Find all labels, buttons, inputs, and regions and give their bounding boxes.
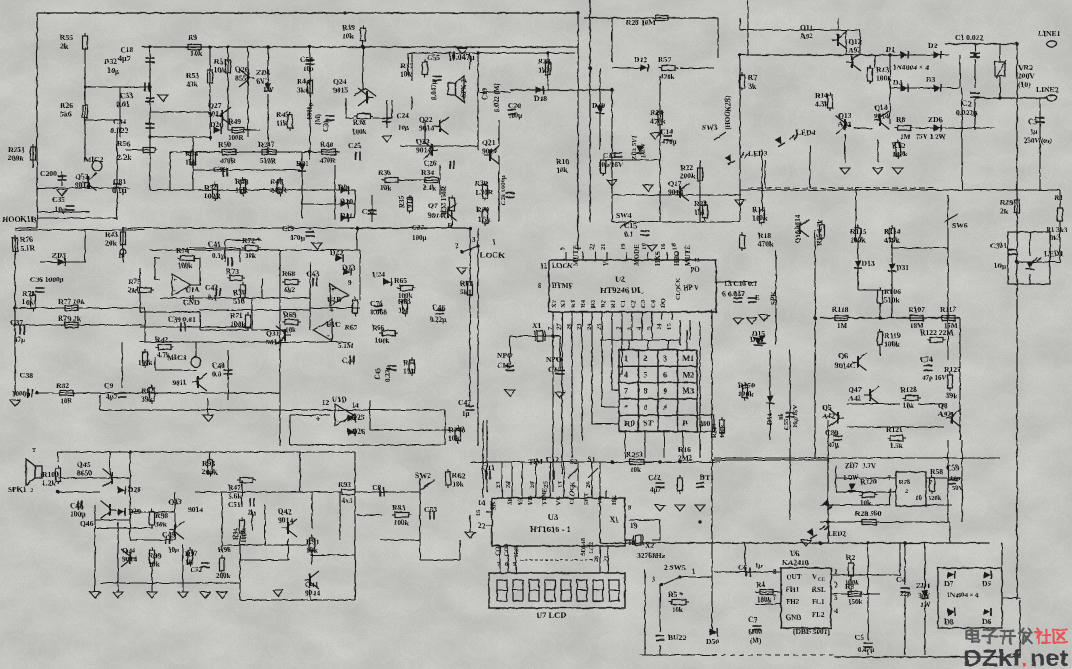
svg-text:RSL: RSL [812, 586, 826, 594]
svg-text:C16: C16 [497, 361, 510, 370]
svg-text:R118: R118 [832, 305, 849, 314]
svg-text:R49: R49 [228, 117, 241, 126]
svg-text:LOCK: LOCK [552, 262, 573, 270]
svg-text:28: 28 [593, 555, 600, 562]
svg-text:9014: 9014 [419, 124, 434, 133]
svg-text:1.2k: 1.2k [42, 479, 56, 488]
svg-text:R82: R82 [56, 381, 69, 390]
svg-text:16μ/16V: 16μ/16V [792, 405, 799, 428]
svg-text:4μ7: 4μ7 [650, 486, 661, 494]
svg-text:0.022 (M): 0.022 (M) [493, 83, 501, 112]
svg-text:MIC2: MIC2 [84, 155, 104, 164]
svg-text:D26: D26 [352, 427, 365, 436]
svg-text:C81: C81 [113, 177, 126, 186]
svg-text:R57: R57 [658, 55, 671, 64]
svg-text:43k: 43k [186, 80, 199, 89]
svg-text:0.022: 0.022 [110, 126, 128, 135]
svg-text:10k: 10k [22, 298, 35, 307]
svg-text:0.047μ: 0.047μ [452, 53, 475, 62]
svg-text:6800ρ: 6800ρ [306, 102, 314, 120]
svg-text:9014: 9014 [208, 110, 223, 119]
svg-text:R1: R1 [1054, 193, 1063, 202]
svg-text:FH2: FH2 [786, 598, 800, 606]
svg-text:(10): (10) [1018, 80, 1031, 89]
svg-text:9: 9 [663, 387, 667, 396]
svg-text:C80: C80 [825, 428, 838, 437]
svg-text:6: 6 [663, 370, 667, 379]
svg-text:SW2: SW2 [415, 471, 431, 480]
svg-text:V: V [694, 284, 699, 292]
svg-text:15: 15 [475, 509, 482, 516]
svg-text:R77 10k: R77 10k [58, 297, 86, 306]
svg-text:HPO: HPO [673, 250, 681, 266]
svg-text:10k: 10k [214, 66, 227, 75]
svg-text:A42: A42 [848, 394, 861, 403]
svg-text:PO: PO [690, 266, 700, 274]
svg-text:D9: D9 [338, 183, 347, 192]
svg-text:9014: 9014 [874, 112, 889, 121]
svg-text:R58: R58 [930, 467, 943, 476]
svg-text:100k: 100k [352, 128, 367, 136]
svg-text:1: 1 [624, 354, 628, 363]
svg-text:FL2: FL2 [812, 611, 825, 619]
svg-text:C53: C53 [424, 505, 437, 514]
svg-text:19: 19 [630, 522, 638, 530]
svg-text:10k: 10k [342, 32, 355, 41]
svg-text:R9: R9 [188, 33, 197, 42]
svg-text:R1: R1 [1046, 226, 1055, 234]
svg-text:RD: RD [624, 419, 636, 428]
svg-text:3k3: 3k3 [1050, 234, 1061, 242]
svg-text:C5: C5 [855, 633, 864, 642]
svg-text:R78: R78 [899, 479, 911, 486]
svg-text:P: P [683, 419, 688, 428]
svg-text:510R: 510R [260, 157, 277, 165]
svg-text:2k: 2k [1000, 207, 1009, 216]
svg-text:9014: 9014 [75, 181, 90, 190]
svg-text:#: # [663, 403, 667, 412]
svg-text:16: 16 [660, 243, 667, 250]
svg-text:C11: C11 [482, 463, 495, 472]
svg-text:SPK1: SPK1 [8, 485, 27, 494]
svg-text:470k: 470k [758, 240, 774, 249]
svg-text:10μ: 10μ [398, 124, 409, 132]
svg-text:CO2: CO2 [589, 542, 595, 554]
svg-text:SPK 2: SPK 2 [460, 79, 468, 98]
svg-text:R2: R2 [600, 300, 607, 308]
svg-text:C3: C3 [640, 299, 647, 308]
svg-text:100μ: 100μ [508, 112, 523, 120]
svg-text:R4: R4 [580, 299, 587, 308]
svg-text:A92: A92 [938, 410, 951, 419]
svg-text:0.01: 0.01 [116, 100, 130, 109]
svg-text:R249: R249 [711, 423, 718, 438]
svg-text:D10: D10 [340, 197, 353, 206]
svg-text:C17: C17 [548, 365, 561, 374]
svg-text:4: 4 [624, 370, 628, 379]
svg-text:R128: R128 [900, 385, 917, 394]
svg-text:MIC3: MIC3 [167, 353, 187, 362]
svg-text:4: 4 [330, 306, 334, 314]
svg-text:C24: C24 [396, 111, 409, 120]
svg-text:1μ: 1μ [1030, 128, 1038, 136]
svg-text:10: 10 [107, 66, 115, 75]
svg-text:C200: C200 [40, 169, 57, 178]
svg-text:R3: R3 [570, 299, 577, 308]
svg-text:R73: R73 [226, 267, 239, 276]
svg-text:μ: μ [115, 68, 119, 76]
svg-text:30k: 30k [155, 520, 168, 529]
svg-text:120k: 120k [928, 495, 942, 502]
svg-text:C49: C49 [162, 530, 175, 539]
svg-text:R93: R93 [338, 480, 351, 489]
svg-text:470k: 470k [660, 73, 675, 81]
svg-text:D19: D19 [592, 101, 605, 110]
svg-text:SK: SK [490, 501, 497, 510]
svg-text:C38: C38 [20, 371, 33, 380]
svg-text:10μ: 10μ [303, 65, 314, 73]
svg-text:100μ: 100μ [412, 234, 427, 242]
svg-text:6 0.047: 6 0.047 [722, 289, 745, 298]
svg-text:U6: U6 [790, 549, 799, 558]
svg-text:4μ7: 4μ7 [106, 393, 117, 401]
svg-text:C1: C1 [620, 300, 627, 308]
svg-text:CO3: CO3 [504, 544, 510, 556]
svg-text:14: 14 [656, 323, 663, 330]
svg-text:1N4004 × 4: 1N4004 × 4 [893, 63, 929, 72]
svg-text:C301: C301 [990, 241, 1007, 250]
svg-text:9015: 9015 [333, 86, 348, 95]
svg-text:R34: R34 [421, 168, 434, 177]
svg-text:LINE2: LINE2 [1036, 85, 1059, 94]
svg-text:6800: 6800 [748, 628, 763, 636]
svg-text:V: V [812, 573, 817, 581]
svg-text:400: 400 [699, 419, 711, 428]
svg-text:(M): (M) [314, 113, 322, 125]
svg-text:D21: D21 [296, 159, 309, 168]
svg-text:32768Hz: 32768Hz [637, 551, 666, 560]
svg-text:20k: 20k [105, 239, 118, 248]
svg-text:BT1: BT1 [700, 473, 714, 482]
svg-text:0.1: 0.1 [624, 230, 634, 239]
svg-text:D25: D25 [352, 413, 365, 422]
svg-text:KA2410: KA2410 [782, 558, 809, 567]
svg-text:A92: A92 [848, 46, 861, 55]
svg-text:MUTE: MUTE [684, 245, 692, 266]
svg-text:MODE: MODE [633, 244, 641, 266]
svg-text:R28 560: R28 560 [855, 509, 882, 518]
svg-text:100k: 100k [884, 340, 900, 349]
svg-text:R66: R66 [372, 324, 385, 332]
svg-text:7: 7 [773, 594, 777, 602]
svg-text:5.1M: 5.1M [338, 342, 354, 350]
svg-text:HP: HP [683, 284, 693, 292]
svg-text:8: 8 [644, 387, 648, 396]
svg-text:R50: R50 [218, 140, 231, 149]
svg-text:R65: R65 [394, 276, 407, 285]
svg-text:9014: 9014 [122, 555, 137, 564]
svg-text:100k: 100k [178, 262, 193, 270]
svg-text:200k: 200k [8, 154, 24, 163]
svg-text:L30R: L30R [475, 188, 494, 197]
svg-text:5.1R: 5.1R [20, 244, 35, 253]
svg-text:HT1616 - 1: HT1616 - 1 [530, 524, 571, 534]
svg-text:250V (m): 250V (m) [1024, 137, 1052, 145]
svg-text:SK: SK [507, 496, 514, 505]
svg-text:39k: 39k [141, 395, 154, 404]
svg-text:U1B: U1B [327, 295, 341, 304]
svg-text:10k: 10k [190, 49, 203, 58]
svg-text:V: V [602, 261, 610, 266]
svg-text:R79 2k: R79 2k [58, 314, 82, 323]
svg-text:FL1: FL1 [812, 598, 825, 606]
svg-text:47ρ 16V: 47ρ 16V [922, 374, 947, 382]
svg-text:TIME: TIME [541, 488, 548, 505]
svg-text:0.1μ: 0.1μ [112, 186, 127, 195]
svg-text:10μ: 10μ [994, 261, 1007, 270]
svg-text:C14: C14 [660, 127, 673, 136]
svg-text:C30: C30 [322, 119, 330, 132]
svg-text:10μ/16V: 10μ/16V [598, 161, 623, 169]
svg-text:R107: R107 [908, 305, 925, 314]
svg-text:(M): (M) [750, 637, 762, 645]
svg-text:Q46: Q46 [80, 519, 94, 528]
svg-text:SEG48: SEG48 [581, 538, 587, 556]
svg-text:R56: R56 [117, 139, 130, 148]
svg-text:0: 0 [644, 403, 648, 412]
svg-text:LED3: LED3 [748, 149, 768, 158]
svg-text:8550: 8550 [235, 74, 250, 83]
svg-text:1/2W: 1/2W [640, 143, 647, 158]
svg-text:1k3: 1k3 [538, 66, 550, 75]
svg-text:ZD7: ZD7 [845, 462, 859, 470]
svg-text:D31: D31 [896, 263, 909, 272]
svg-text:470R: 470R [220, 157, 237, 165]
svg-text:C39 0.01: C39 0.01 [168, 315, 196, 324]
svg-text:M1: M1 [683, 354, 695, 363]
svg-text:U24: U24 [372, 270, 385, 279]
svg-text:X2: X2 [551, 300, 558, 308]
svg-text:510k: 510k [884, 296, 900, 305]
svg-text:DZkf: DZkf [963, 645, 1021, 669]
svg-text:R96: R96 [218, 545, 231, 554]
svg-text:470μ: 470μ [290, 234, 305, 242]
svg-text:23: 23 [495, 481, 502, 488]
svg-text:21: 21 [600, 244, 607, 251]
svg-text:FH1: FH1 [786, 586, 800, 594]
svg-text:3: 3 [663, 354, 667, 363]
svg-text:GND: GND [183, 298, 200, 307]
svg-text:15k: 15k [185, 158, 198, 167]
svg-text:D4: D4 [893, 78, 902, 87]
svg-text:C55: C55 [427, 53, 440, 62]
svg-text:X1: X1 [560, 300, 567, 308]
svg-text:1M: 1M [900, 133, 911, 141]
svg-text:*: * [624, 403, 628, 412]
svg-text:C33: C33 [120, 91, 133, 100]
svg-text:3: 3 [834, 594, 838, 602]
svg-text:X2: X2 [645, 541, 654, 550]
svg-text:C26: C26 [424, 159, 437, 168]
svg-text:A42: A42 [822, 412, 835, 421]
svg-text:D32: D32 [104, 57, 117, 66]
svg-text:Q6: Q6 [838, 351, 848, 360]
svg-text:C13: C13 [603, 151, 616, 160]
svg-text:8650: 8650 [77, 469, 92, 478]
svg-text:U1C: U1C [326, 320, 341, 329]
svg-text:DO: DO [660, 298, 667, 308]
svg-text:2: 2 [30, 488, 33, 494]
svg-text:C18: C18 [120, 45, 133, 54]
svg-text:10μ: 10μ [55, 206, 66, 214]
svg-text:D5: D5 [982, 579, 991, 588]
svg-text:26: 26 [585, 481, 592, 488]
svg-text:100μ: 100μ [70, 510, 86, 519]
svg-text:9: 9 [348, 279, 352, 287]
svg-text:470k: 470k [650, 117, 666, 126]
svg-text:100k: 100k [738, 390, 754, 399]
svg-text:C46: C46 [432, 303, 445, 312]
svg-text:2: 2 [834, 581, 838, 589]
svg-text:D1: D1 [886, 45, 895, 54]
svg-text:3.3V: 3.3V [862, 462, 876, 470]
svg-text:0.0: 0.0 [212, 370, 222, 379]
svg-text:R67: R67 [345, 324, 358, 332]
svg-text:HT9246 DL: HT9246 DL [600, 285, 644, 295]
svg-text:9014: 9014 [416, 146, 431, 155]
svg-text:OUT: OUT [786, 573, 802, 581]
svg-text:C42: C42 [205, 283, 218, 292]
svg-text:HKS: HKS [654, 251, 662, 266]
svg-text:D13: D13 [862, 259, 875, 268]
svg-text:10k: 10k [380, 184, 391, 192]
svg-text:9011: 9011 [172, 378, 187, 387]
svg-text:S2: S2 [570, 458, 578, 466]
svg-text:C9: C9 [104, 381, 113, 390]
svg-text:ST: ST [644, 419, 654, 428]
svg-text:10k: 10k [400, 70, 413, 79]
svg-text:0.22μ: 0.22μ [430, 316, 446, 324]
svg-text:U1A: U1A [185, 285, 200, 294]
svg-text:HOOK1B: HOOK1B [2, 215, 37, 224]
svg-text:C6: C6 [738, 563, 747, 572]
svg-text:10k: 10k [672, 606, 683, 614]
svg-text:C20: C20 [508, 101, 521, 110]
svg-text:3k6: 3k6 [297, 86, 309, 95]
svg-text:C4: C4 [896, 575, 905, 584]
svg-text:E: E [755, 294, 760, 302]
svg-text:C7: C7 [748, 615, 757, 624]
svg-text:100k: 100k [375, 337, 390, 345]
svg-text:HK: HK [611, 495, 618, 505]
svg-text:47μ: 47μ [14, 336, 25, 344]
svg-text:R94: R94 [232, 527, 240, 540]
svg-text:.: . [1021, 645, 1027, 669]
svg-text:ZD3: ZD3 [52, 251, 67, 260]
svg-text:9014: 9014 [482, 147, 497, 156]
svg-text:4x3: 4x3 [342, 497, 353, 505]
svg-text:7: 7 [624, 387, 628, 396]
svg-text:D50: D50 [706, 637, 719, 646]
svg-text:M3: M3 [683, 387, 695, 396]
svg-text:200k: 200k [680, 172, 696, 181]
svg-text:X1: X1 [610, 516, 619, 524]
svg-text:LINE1: LINE1 [1038, 29, 1061, 38]
svg-text:1: 1 [692, 568, 696, 576]
svg-text:0.068: 0.068 [370, 308, 387, 317]
svg-text:13 C10 0.1: 13 C10 0.1 [724, 279, 758, 288]
svg-text:D2: D2 [928, 41, 937, 50]
svg-text:C2: C2 [962, 99, 971, 108]
svg-text:R8: R8 [896, 115, 905, 124]
svg-text:VC: VC [555, 495, 562, 505]
svg-text:2k: 2k [128, 286, 137, 295]
svg-text:100k: 100k [394, 519, 409, 527]
svg-text:22: 22 [478, 522, 486, 530]
svg-text:R121: R121 [886, 425, 903, 434]
svg-text:6k2: 6k2 [284, 286, 295, 294]
svg-text:10R: 10R [60, 397, 73, 405]
svg-text:R42: R42 [155, 335, 168, 344]
svg-text:R68: R68 [282, 269, 295, 278]
svg-text:10k: 10k [285, 326, 296, 334]
svg-text:R30: R30 [476, 205, 489, 214]
svg-text:DTMF: DTMF [552, 282, 573, 290]
svg-text:200k: 200k [202, 468, 218, 477]
svg-text:C57: C57 [362, 207, 375, 216]
svg-text:U3: U3 [548, 512, 558, 522]
svg-text:SW3: SW3 [702, 123, 718, 132]
svg-text:SEGi: SEGi [514, 544, 520, 558]
svg-text:0.047μ: 0.047μ [430, 80, 438, 100]
svg-text:4.3k: 4.3k [815, 100, 829, 109]
svg-text:10k: 10k [903, 402, 914, 410]
svg-text:C54: C54 [300, 55, 313, 64]
svg-text:A92: A92 [800, 32, 813, 41]
svg-text:R2: R2 [846, 553, 855, 562]
svg-text:(DBL 5001): (DBL 5001) [793, 627, 830, 636]
svg-text:4: 4 [834, 607, 838, 615]
svg-text:R38: R38 [353, 118, 366, 127]
svg-text:R35: R35 [398, 195, 406, 208]
svg-text:11k: 11k [276, 119, 288, 128]
svg-text:2: 2 [644, 354, 648, 363]
svg-text:R247: R247 [258, 140, 275, 149]
svg-text:19: 19 [620, 243, 627, 250]
svg-text:D15: D15 [750, 335, 763, 344]
svg-text:20: 20 [529, 482, 536, 489]
svg-text:CLOCK: CLOCK [676, 278, 682, 300]
svg-text:SW6: SW6 [952, 221, 968, 230]
svg-text:X1: X1 [532, 321, 541, 330]
svg-text:D20: D20 [210, 120, 223, 129]
svg-text:C27: C27 [412, 224, 425, 232]
svg-text:R4: R4 [756, 580, 765, 589]
svg-text:C2: C2 [630, 300, 637, 308]
svg-text:C1 0.022: C1 0.022 [955, 33, 983, 42]
svg-text:R28 10M: R28 10M [626, 18, 656, 27]
svg-text:D3: D3 [926, 75, 935, 84]
svg-text:100k: 100k [719, 424, 726, 438]
svg-text:22: 22 [589, 244, 596, 251]
svg-text:D11: D11 [340, 211, 353, 220]
svg-text:D7: D7 [944, 579, 953, 588]
svg-text:100k: 100k [752, 214, 768, 223]
svg-text:100k: 100k [892, 150, 908, 159]
svg-text:R253: R253 [626, 450, 643, 459]
svg-text:1.5k: 1.5k [890, 442, 903, 450]
svg-text:3k3: 3k3 [1056, 226, 1067, 234]
